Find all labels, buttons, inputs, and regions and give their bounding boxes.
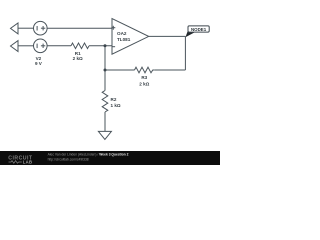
svg-text:R3: R3 bbox=[141, 75, 147, 80]
wire bbox=[18, 45, 34, 47]
resistor R2 bbox=[102, 91, 108, 113]
ground bbox=[98, 131, 111, 139]
voltage source V2 bbox=[34, 39, 48, 53]
wire feedback left bbox=[154, 69, 185, 71]
wire bbox=[105, 69, 135, 71]
svg-text:1 kΩ: 1 kΩ bbox=[111, 103, 121, 108]
voltage source V1 bbox=[34, 21, 48, 35]
wire above R2 bbox=[104, 70, 106, 91]
wire bbox=[47, 45, 71, 47]
wire below R2 bbox=[104, 112, 106, 131]
wire output down bbox=[184, 36, 186, 70]
svg-text:9 V: 9 V bbox=[35, 61, 43, 66]
resistor R3 bbox=[135, 67, 155, 73]
svg-text:2 kΩ: 2 kΩ bbox=[73, 56, 83, 61]
svg-text:http://circuitlab.com/c49t338: http://circuitlab.com/c49t338 bbox=[48, 158, 89, 162]
svg-text:TL081: TL081 bbox=[117, 37, 131, 42]
wire output bbox=[149, 35, 186, 37]
resistor R1 bbox=[71, 43, 89, 49]
wire bbox=[18, 27, 34, 29]
port arrow top bbox=[11, 23, 19, 34]
svg-text:OA2: OA2 bbox=[117, 31, 127, 36]
port arrow bottom bbox=[11, 41, 19, 52]
wire bbox=[89, 45, 112, 47]
op-amp U1 bbox=[112, 19, 149, 55]
wire (inverting node down) bbox=[104, 46, 106, 70]
footer bar bbox=[0, 151, 220, 165]
wire bbox=[47, 27, 112, 29]
junction node B bbox=[104, 69, 107, 72]
node NODE1 flag bbox=[185, 31, 195, 37]
svg-text:NODE1: NODE1 bbox=[191, 27, 207, 32]
svg-text:2 kΩ: 2 kΩ bbox=[139, 82, 149, 87]
junction node A bbox=[104, 44, 107, 47]
svg-text:Alec Van der Linden (AlecLinde: Alec Van der Linden (AlecLinden) / Week … bbox=[48, 153, 129, 157]
svg-text:R2: R2 bbox=[111, 97, 117, 102]
svg-text:LAB: LAB bbox=[23, 160, 33, 165]
